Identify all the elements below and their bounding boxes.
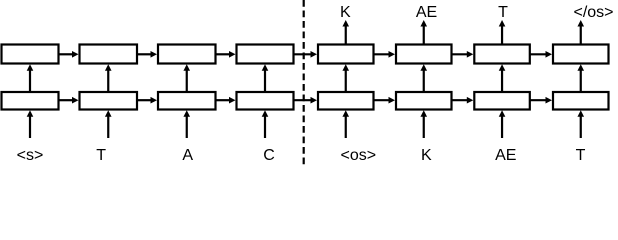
wire bottom row cell 3 to cell 4: [216, 97, 236, 104]
output arrow column 8: [577, 20, 584, 45]
wire cell 7 bottom to top: [499, 64, 506, 92]
encoder top cell 1: [2, 45, 59, 64]
wire cell 5 bottom to top: [342, 64, 349, 92]
wire cell 1 bottom to top: [27, 64, 34, 92]
wire bottom row cell 4 to cell 5: [294, 97, 318, 104]
svg-text:T: T: [576, 147, 586, 164]
encoder top cell 2: [80, 45, 138, 64]
wire cell 8 bottom to top: [577, 64, 584, 92]
input arrow column 6: [420, 110, 427, 138]
wire top row cell 5 to cell 6: [374, 51, 396, 58]
wire top row cell 7 to cell 8: [530, 51, 552, 58]
encoder bottom cell 4: [237, 92, 294, 110]
decoder bottom cell 6: [396, 92, 452, 110]
input arrow column 5: [342, 110, 349, 138]
input arrow column 4: [262, 110, 269, 138]
input arrow column 2: [105, 110, 112, 138]
output arrow column 6: [420, 20, 427, 45]
svg-text:T: T: [498, 4, 508, 21]
decoder bottom cell 8: [553, 92, 609, 110]
wire top row cell 3 to cell 4: [216, 51, 236, 58]
encoder top cell 4: [237, 45, 294, 64]
svg-text:T: T: [96, 147, 106, 164]
output arrow column 7: [499, 20, 506, 45]
wire top row cell 6 to cell 7: [452, 51, 474, 58]
svg-text:</os>: </os>: [573, 4, 613, 21]
wire bottom row cell 7 to cell 8: [530, 97, 552, 104]
decoder top cell 7: [474, 45, 530, 64]
svg-text:<s>: <s>: [17, 147, 44, 164]
wire bottom row cell 5 to cell 6: [374, 97, 396, 104]
decoder bottom cell 5: [318, 92, 374, 110]
output arrow column 5: [342, 20, 349, 45]
decoder bottom cell 7: [474, 92, 530, 110]
wire cell 2 bottom to top: [105, 64, 112, 92]
wire top row cell 2 to cell 3: [137, 51, 157, 58]
encoder bottom cell 2: [80, 92, 138, 110]
svg-text:C: C: [263, 147, 275, 164]
svg-text:A: A: [182, 147, 193, 164]
wire cell 4 bottom to top: [262, 64, 269, 92]
svg-text:K: K: [421, 147, 432, 164]
svg-text:K: K: [340, 4, 351, 21]
encoder top cell 3: [158, 45, 216, 64]
wire cell 3 bottom to top: [183, 64, 190, 92]
wire bottom row cell 6 to cell 7: [452, 97, 474, 104]
encoder bottom cell 3: [158, 92, 216, 110]
svg-text:AE: AE: [416, 4, 437, 21]
input arrow column 7: [499, 110, 506, 138]
wire top row cell 4 to cell 5: [294, 51, 318, 58]
decoder top cell 6: [396, 45, 452, 64]
input arrow column 1: [27, 110, 34, 138]
wire bottom row cell 2 to cell 3: [137, 97, 157, 104]
wire bottom row cell 1 to cell 2: [59, 97, 79, 104]
svg-text:<os>: <os>: [341, 147, 377, 164]
wire top row cell 1 to cell 2: [59, 51, 79, 58]
wire cell 6 bottom to top: [420, 64, 427, 92]
encoder bottom cell 1: [2, 92, 59, 110]
input arrow column 8: [577, 110, 584, 138]
decoder top cell 5: [318, 45, 374, 64]
svg-text:AE: AE: [495, 147, 516, 164]
dashed encoder/decoder separator: [303, 0, 305, 166]
decoder top cell 8: [553, 45, 609, 64]
input arrow column 3: [183, 110, 190, 138]
